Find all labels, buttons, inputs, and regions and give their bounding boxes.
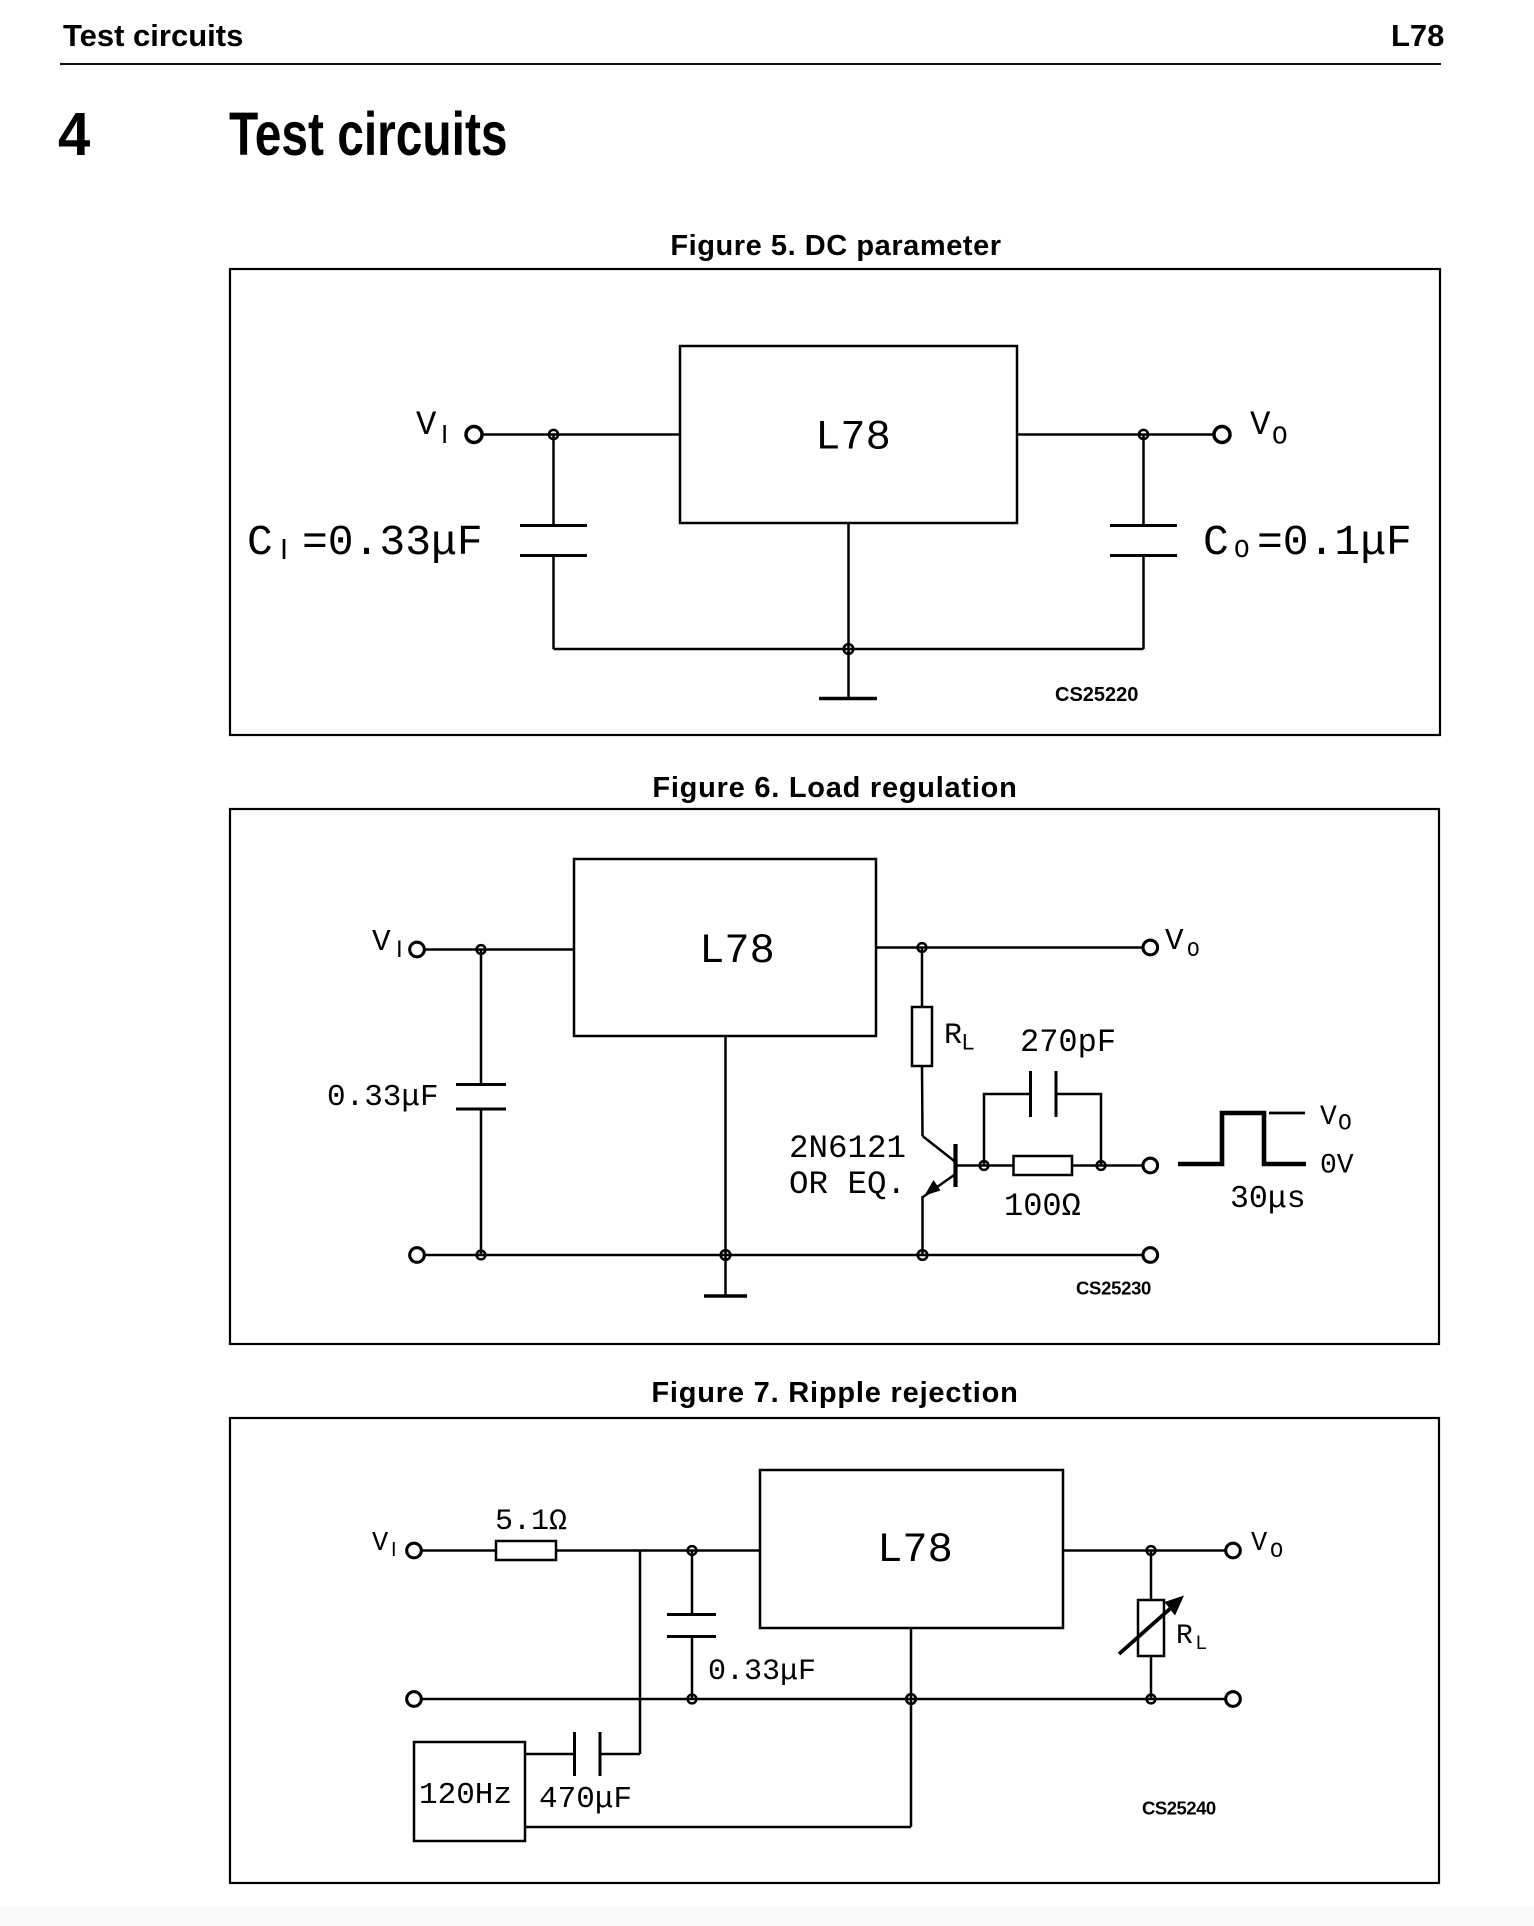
svg-text:O: O <box>1234 535 1250 565</box>
svg-text:120Hz: 120Hz <box>419 1778 512 1813</box>
svg-text:C: C <box>247 518 273 567</box>
capacitor C1 plates <box>456 1085 506 1110</box>
capacitor CO plates <box>1110 526 1177 556</box>
figure 5 frame <box>230 269 1440 735</box>
header right: L78 <box>1391 18 1444 54</box>
svg-text:100Ω: 100Ω <box>1004 1188 1081 1225</box>
terminal bottom right <box>1143 1248 1158 1263</box>
wire L78 output to Vo <box>1017 433 1214 436</box>
junction node collector rail <box>918 943 927 952</box>
svg-text:270pF: 270pF <box>1020 1024 1116 1061</box>
resistor RL body <box>912 1007 932 1066</box>
capacitor 270pF right leg <box>1057 1094 1101 1166</box>
wire Vo drop to RL <box>1150 1551 1153 1601</box>
svg-text:I: I <box>396 936 403 963</box>
junction node at Vi rail <box>549 430 558 439</box>
svg-text:R: R <box>944 1019 962 1053</box>
wire base to 100 ohm network <box>956 1164 1014 1167</box>
svg-text:V: V <box>1165 924 1184 959</box>
wire resistor to L78 input <box>556 1549 760 1552</box>
svg-text:L78: L78 <box>877 1526 953 1574</box>
transistor Q1 emitter diagonal <box>923 1174 956 1197</box>
svg-text:L: L <box>962 1030 974 1055</box>
terminal VO <box>1143 940 1158 955</box>
wire RL to collector <box>921 1066 924 1136</box>
svg-text:L: L <box>1196 1633 1207 1654</box>
svg-text:O: O <box>1272 422 1288 452</box>
svg-text:I: I <box>280 534 288 566</box>
wire L78 output to Vo <box>1063 1549 1226 1552</box>
junction node RL bottom <box>1147 1695 1156 1704</box>
capacitor C1 stem upper <box>480 950 483 1084</box>
oscillator 120Hz box <box>414 1742 525 1841</box>
page bottom scan tint <box>0 1907 1534 1926</box>
svg-text:OR EQ.: OR EQ. <box>789 1166 906 1203</box>
svg-text:V: V <box>1251 1529 1268 1559</box>
terminal output pulse <box>1143 1158 1158 1173</box>
capacitor CI stem lower <box>552 557 555 649</box>
wire bottom rail <box>424 1254 1143 1257</box>
junction node bottom rail ground <box>721 1250 731 1260</box>
resistor 100 ohm body <box>1014 1156 1073 1175</box>
section number 4 <box>58 99 90 169</box>
wire collector drop to resistor RL <box>921 948 924 1008</box>
junction node bottom rail left <box>477 1251 486 1260</box>
svg-text:V: V <box>416 407 437 445</box>
junction node at ground rail <box>844 644 854 654</box>
wire middle return rail <box>421 1698 1226 1701</box>
regulator U1 L78 box <box>680 346 1017 523</box>
terminal VO <box>1226 1543 1241 1558</box>
resistor RL arrowhead <box>1165 1596 1185 1616</box>
ground bar <box>819 697 877 701</box>
capacitor 470uF plates <box>575 1732 601 1776</box>
capacitor 270pF plates <box>1031 1071 1057 1117</box>
svg-text:R: R <box>1176 1621 1193 1652</box>
svg-text:I: I <box>391 1539 397 1561</box>
terminal VI <box>407 1543 422 1558</box>
svg-text:O: O <box>1270 1539 1283 1564</box>
svg-text:CS25230: CS25230 <box>1076 1278 1151 1299</box>
junction node input cap <box>477 945 486 954</box>
terminal VI <box>466 427 482 443</box>
terminal return right <box>1226 1692 1241 1707</box>
capacitor 0.33uF stem upper <box>691 1551 694 1614</box>
wire oscillator bottom <box>525 1826 911 1829</box>
header rule <box>60 63 1441 65</box>
transistor Q1 emitter arrowhead <box>925 1180 941 1196</box>
capacitor CO stem lower <box>1142 557 1145 649</box>
svg-text:L78: L78 <box>699 927 775 975</box>
regulator U1 L78 box <box>574 859 876 1036</box>
capacitor C1 stem lower <box>480 1110 483 1255</box>
ground stem <box>724 1036 727 1296</box>
figure 5 caption <box>670 230 1001 263</box>
terminal return left <box>407 1692 422 1707</box>
svg-text:CS25240: CS25240 <box>1142 1798 1216 1819</box>
svg-text:O: O <box>1187 940 1200 963</box>
wire Vi to series resistor <box>421 1549 496 1552</box>
capacitor CO stem upper <box>1142 435 1145 525</box>
transistor Q1 collector diagonal <box>923 1136 956 1162</box>
svg-text:0.33μF: 0.33μF <box>708 1655 816 1689</box>
pulse Vo reference line <box>1269 1112 1305 1115</box>
wire 100 ohm to output terminal <box>1072 1164 1143 1167</box>
svg-text:2N6121: 2N6121 <box>789 1130 906 1167</box>
capacitor 0.33uF plates <box>667 1615 716 1637</box>
junction node input cap top <box>688 1546 697 1555</box>
wire oscillator to 470uF <box>525 1753 573 1756</box>
wire bottom return <box>554 648 1144 651</box>
svg-text:30μs: 30μs <box>1230 1182 1306 1217</box>
junction node at Vo rail <box>1139 430 1148 439</box>
terminal bottom left <box>410 1248 425 1263</box>
ground bar <box>704 1294 747 1298</box>
svg-text:470μF: 470μF <box>539 1782 632 1817</box>
junction node cap bottom rail <box>688 1695 697 1704</box>
header left: Test circuits <box>63 18 243 54</box>
svg-text:CS25220: CS25220 <box>1055 684 1138 706</box>
wire Vi to L78 input <box>481 433 680 436</box>
regulator U1 L78 box <box>760 1470 1063 1628</box>
svg-text:O: O <box>1338 1111 1352 1137</box>
wire Vi to L78 input <box>424 948 574 951</box>
terminal VO <box>1214 427 1230 443</box>
svg-text:=0.1μF: =0.1μF <box>1257 518 1412 567</box>
pulse waveform <box>1178 1113 1306 1164</box>
capacitor CI plates <box>520 526 587 556</box>
svg-text:V: V <box>1250 407 1271 445</box>
resistor RL arrow <box>1119 1607 1172 1654</box>
figure 6 frame <box>230 809 1439 1344</box>
wire injection riser <box>639 1551 642 1755</box>
wire RL to return rail <box>1150 1656 1153 1699</box>
svg-text:0V: 0V <box>1320 1151 1354 1182</box>
svg-text:V: V <box>372 1529 389 1559</box>
capacitor 270pF left leg <box>984 1094 1029 1166</box>
figure 6 caption <box>652 772 1017 805</box>
svg-text:0.33μF: 0.33μF <box>327 1080 439 1115</box>
svg-text:5.1Ω: 5.1Ω <box>495 1505 567 1539</box>
figure 7 caption <box>651 1377 1018 1410</box>
svg-text:V: V <box>1320 1102 1337 1133</box>
resistor 5.1 ohm body <box>496 1541 556 1560</box>
ground stem from L78 <box>910 1628 913 1827</box>
wire emitter to bottom rail <box>921 1196 924 1255</box>
transistor Q1 base bar <box>953 1144 957 1187</box>
svg-text:L78: L78 <box>815 414 891 462</box>
junction node base right <box>1097 1161 1106 1170</box>
junction node RL top <box>1147 1546 1156 1555</box>
wire L78 output to Vo <box>876 946 1143 949</box>
junction node base left <box>980 1161 989 1170</box>
terminal VI <box>410 942 425 957</box>
svg-text:V: V <box>372 925 391 960</box>
svg-text:=0.33μF: =0.33μF <box>302 518 483 567</box>
junction node bottom rail emitter <box>918 1250 928 1260</box>
ground stem <box>847 523 850 698</box>
svg-text:I: I <box>441 419 448 449</box>
wire 470uF to input node <box>601 1753 640 1756</box>
section heading Test circuits <box>229 99 508 169</box>
resistor RL body <box>1138 1600 1164 1656</box>
capacitor CI stem upper <box>552 435 555 525</box>
figure 7 frame <box>230 1418 1439 1883</box>
capacitor 0.33uF stem lower <box>691 1638 694 1699</box>
svg-text:C: C <box>1203 518 1229 567</box>
junction node ground rail <box>906 1694 916 1704</box>
